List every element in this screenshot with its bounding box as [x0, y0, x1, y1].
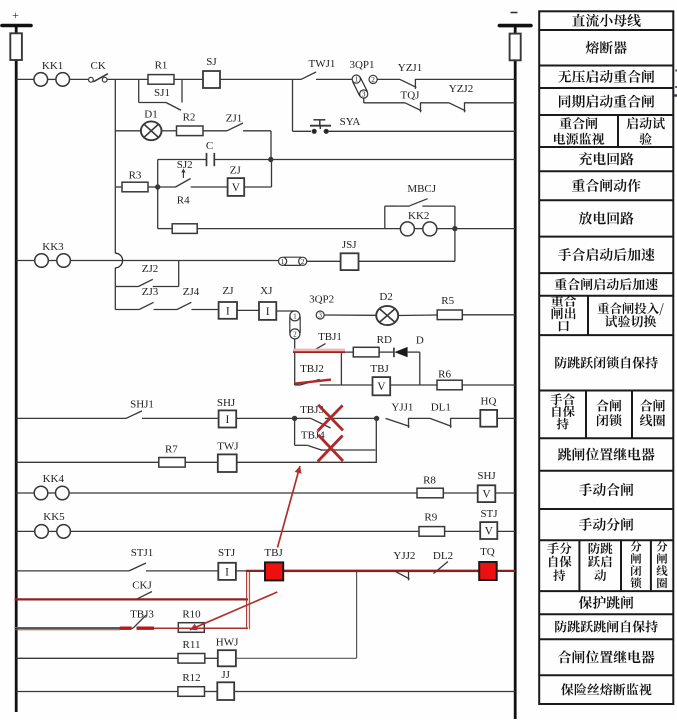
wire junction CK drop V1 upper	[114, 79, 116, 187]
wire V1 to ZJ3	[115, 309, 139, 311]
contact TBJ3	[295, 404, 331, 428]
switch CK	[89, 60, 108, 82]
wire YZJ2 to bus	[465, 102, 516, 104]
red highlight TBJ1 closed	[293, 349, 345, 353]
wire bus to R12	[16, 691, 178, 693]
svg-text:R4: R4	[177, 195, 190, 207]
svg-text:V: V	[485, 526, 494, 538]
contact TWJ1	[301, 58, 335, 79]
svg-text:R7: R7	[165, 444, 178, 456]
contact ZJ2	[125, 263, 159, 287]
wire KK3 row	[70, 260, 278, 262]
resistor RD	[353, 334, 392, 357]
relay coil TBJ current (red)	[264, 547, 283, 580]
contact TBJ3 bottom	[130, 609, 154, 629]
svg-text:JSJ: JSJ	[342, 239, 357, 251]
wire V1 to D1	[115, 130, 141, 132]
label TBJ2	[300, 363, 324, 375]
contact YJJ1	[386, 402, 414, 428]
svg-text:XJ: XJ	[260, 285, 273, 297]
wire 3QP1-2 to YZJ1	[377, 78, 400, 80]
red wire V9 outline	[247, 571, 250, 629]
svg-text:TQJ: TQJ	[401, 90, 421, 102]
svg-text:V: V	[377, 381, 386, 393]
wire D to corner	[408, 351, 420, 353]
contact SJ2 delayed	[176, 159, 193, 187]
contact TBJ4	[295, 430, 326, 451]
svg-text:3: 3	[362, 91, 366, 99]
svg-text:R1: R1	[155, 60, 168, 72]
wire KK1 to CK	[70, 78, 89, 80]
svg-text:R5: R5	[441, 295, 454, 307]
svg-text:TBJ: TBJ	[370, 363, 389, 375]
function table	[539, 11, 677, 704]
contact YZJ1	[398, 62, 422, 89]
svg-text:+: +	[12, 8, 19, 22]
node - (negative DC bus label)	[511, 12, 518, 14]
wire 3QP2-2 drop	[294, 339, 296, 352]
node junction KK2	[453, 226, 457, 230]
node junction C row	[269, 157, 273, 161]
wire V5	[340, 352, 342, 385]
svg-text:R11: R11	[183, 639, 201, 651]
wire R8 to SHJ	[443, 492, 477, 494]
svg-text:HWJ: HWJ	[216, 637, 239, 649]
svg-text:SYA: SYA	[340, 116, 361, 128]
wire V2 to R4	[158, 228, 173, 230]
wire SJ1 branch right	[181, 79, 183, 102]
wire TBJ3b to R10	[146, 627, 178, 629]
svg-text:ZJ4: ZJ4	[183, 286, 200, 298]
wire TBJ2 to TBJ	[320, 384, 373, 386]
wire KK2 to bus	[437, 228, 515, 230]
relay coil SJ	[203, 56, 220, 88]
contact SHJ1	[126, 399, 154, 419]
contact MBCJ	[399, 183, 437, 206]
svg-text:2: 2	[371, 76, 375, 84]
svg-text:R9: R9	[424, 512, 437, 524]
svg-text:I: I	[266, 306, 270, 318]
wire TWJ right	[237, 461, 377, 463]
resistor R1	[148, 60, 174, 85]
lamp D1	[141, 109, 162, 141]
node junction R3	[156, 185, 160, 189]
wire D2 to R5	[398, 314, 437, 317]
svg-text:TBJ1: TBJ1	[318, 331, 342, 343]
wire C row left	[158, 160, 207, 188]
wire R3 left	[115, 186, 122, 188]
plug 3QP2	[290, 294, 334, 339]
svg-text:3QP2: 3QP2	[309, 294, 334, 306]
svg-text:YZJ1: YZJ1	[398, 62, 422, 74]
svg-text:I: I	[226, 305, 230, 317]
wire ZJ to corner	[244, 160, 271, 188]
wire junction to SJ2	[158, 186, 176, 188]
relay coil JJ	[217, 669, 234, 700]
switch KK4	[34, 473, 69, 500]
svg-text:CK: CK	[91, 60, 106, 72]
red wire trip row	[246, 570, 515, 572]
svg-text:ZJ: ZJ	[223, 285, 235, 297]
wire bus to CKJ black	[16, 598, 136, 600]
resistor R7	[159, 444, 185, 468]
resistor R2	[177, 112, 204, 136]
wire SYA to bus	[328, 130, 515, 132]
contact TBJ1	[295, 331, 342, 352]
wire ZJ1 to corner	[243, 131, 271, 160]
svg-text:MBCJ: MBCJ	[407, 183, 436, 195]
fuse FU1	[10, 33, 22, 60]
wire V1 to ZJ2	[115, 286, 124, 288]
svg-text:KK1: KK1	[42, 60, 63, 72]
wire RD to D	[379, 351, 394, 353]
wire R7 to TWJ	[185, 461, 218, 463]
wire KK5 to R9	[70, 530, 419, 532]
wire STJ1 to STJ	[146, 570, 218, 572]
contact ZJ1	[226, 113, 243, 131]
svg-text:R12: R12	[182, 672, 200, 684]
svg-text:ZJ: ZJ	[230, 165, 242, 177]
wire R4 to KK2	[197, 228, 400, 230]
svg-text:D1: D1	[144, 109, 157, 121]
red mark TBJ2	[295, 380, 331, 384]
svg-text:YJJ2: YJJ2	[393, 550, 415, 562]
resistor R6	[437, 369, 462, 390]
svg-text:ZJ1: ZJ1	[226, 113, 243, 125]
wire bus to R7	[16, 461, 159, 463]
wire R9 to STJ	[445, 530, 481, 532]
wire ZJ4 to ZJ	[191, 309, 218, 311]
wire plug to JSJ	[307, 260, 341, 262]
wire bus to R11	[16, 657, 178, 659]
contact DL2	[433, 550, 453, 574]
wire R5 to bus	[462, 314, 515, 316]
wire MBCJ branch up	[385, 206, 399, 229]
switch KK1	[34, 60, 70, 86]
wire TWJ1 to 3QP1	[316, 78, 352, 80]
svg-text:SJ2: SJ2	[177, 159, 193, 171]
svg-text:SHJ: SHJ	[477, 470, 496, 482]
svg-text:V: V	[232, 182, 241, 194]
wire bus to KK4	[16, 492, 34, 494]
svg-text:TWJ: TWJ	[217, 441, 239, 453]
relay coil HQ	[480, 396, 497, 427]
red wire TBJ3 row outline	[15, 628, 249, 630]
svg-text:KK2: KK2	[408, 210, 429, 222]
wire SHJ1 to SHJ	[142, 417, 219, 419]
relay coil SHJ voltage	[477, 470, 496, 502]
capacitor C	[206, 140, 214, 166]
wire TBJ to TQ black	[283, 570, 479, 572]
resistor R4	[172, 195, 197, 234]
contact TQJ	[401, 90, 422, 113]
wire SHJ to bus	[495, 492, 515, 494]
wire ZJ2 right	[153, 261, 179, 287]
wire TBJ to R6	[390, 384, 437, 386]
bus bar negative	[499, 24, 531, 28]
svg-text:DL1: DL1	[431, 402, 451, 414]
wire gray V8	[356, 571, 358, 658]
wire black V9 under	[247, 571, 249, 628]
diode D	[394, 335, 424, 358]
svg-text:HQ: HQ	[481, 396, 497, 408]
switch KK2	[400, 210, 436, 236]
wire JJ to bus	[234, 691, 515, 693]
contact YJJ2	[393, 550, 415, 580]
wire V6 diode drop	[419, 352, 421, 385]
svg-text:STJ: STJ	[218, 547, 236, 559]
svg-text:JJ: JJ	[221, 669, 230, 681]
resistor R11	[178, 639, 205, 663]
wire CKJ right black	[152, 598, 248, 600]
relay coil JSJ	[341, 239, 359, 270]
svg-text:KK4: KK4	[43, 473, 65, 485]
wire STJ to bus	[497, 530, 515, 532]
wire R2 to ZJ1	[203, 130, 227, 132]
svg-text:TBJ2: TBJ2	[300, 363, 324, 375]
resistor R10	[178, 609, 204, 633]
resistor R3	[122, 170, 148, 192]
svg-text:I: I	[225, 414, 229, 426]
contact TBJ2	[295, 379, 320, 385]
svg-text:ZJ3: ZJ3	[142, 286, 159, 298]
svg-text:RD: RD	[377, 334, 392, 346]
svg-text:KK3: KK3	[42, 241, 64, 253]
node + (positive DC bus label)	[12, 8, 19, 22]
wire SJ1 branch	[139, 102, 166, 104]
relay coil STJ voltage	[480, 508, 498, 539]
svg-text:1: 1	[355, 76, 359, 84]
wire JSJ right	[359, 229, 455, 262]
resistor R5	[437, 295, 462, 320]
wire KK4 to R8	[69, 492, 417, 494]
contact SJ1	[154, 87, 181, 110]
wire TWJ1 junction drop	[293, 79, 312, 131]
svg-text:TWJ1: TWJ1	[309, 58, 336, 70]
wire D1 to R2	[162, 130, 177, 132]
svg-text:TBJ3: TBJ3	[130, 609, 154, 621]
svg-text:SJ1: SJ1	[154, 87, 170, 99]
relay coil ZJ current	[219, 285, 237, 319]
wire MBCJ right	[422, 206, 455, 229]
switch KK5	[35, 511, 71, 538]
wire R6 to bus	[462, 384, 515, 386]
contact CKJ	[132, 580, 152, 600]
bus bar positive	[2, 24, 31, 28]
svg-text:SHJ1: SHJ1	[130, 399, 154, 411]
wire V4 TBJ3-TBJ4	[294, 418, 296, 445]
resistor R12	[178, 672, 205, 696]
wire HQ to bus	[497, 417, 515, 419]
red arrow to R10	[190, 592, 277, 630]
svg-text:YZJ2: YZJ2	[449, 83, 473, 95]
relay coil STJ current	[218, 547, 236, 580]
relay coil XJ	[259, 285, 276, 320]
wire R3 to junction	[148, 186, 158, 188]
push button SYA	[310, 116, 360, 133]
svg-text:R3: R3	[129, 170, 142, 182]
wire bus to KK3	[16, 260, 34, 262]
wire R10 right	[204, 627, 248, 629]
wire DL1 to HQ	[451, 417, 481, 419]
svg-text:1: 1	[281, 258, 285, 266]
svg-text:1: 1	[293, 313, 297, 321]
wire R12 to JJ	[205, 691, 218, 693]
wire TBJ4 right	[320, 449, 375, 451]
wire SJ1 branch left	[138, 79, 140, 102]
wire XJ to plug	[276, 310, 295, 312]
switch KK3	[35, 241, 71, 267]
svg-text:SJ: SJ	[206, 56, 217, 68]
resistor R9	[419, 512, 445, 537]
node TBJ3 left	[292, 416, 296, 420]
svg-text:KK5: KK5	[43, 511, 65, 523]
svg-text:DL2: DL2	[433, 550, 453, 562]
red wire CKJ row	[15, 598, 249, 600]
svg-text:R10: R10	[182, 609, 201, 621]
wire 3QP2-3 to D2	[324, 314, 376, 316]
wire bus to SHJ1	[16, 417, 126, 419]
wire V1 hop over KK3	[115, 187, 122, 310]
plug 3QP1	[349, 59, 377, 99]
wire SHJ to node	[236, 417, 294, 419]
relay coil SHJ current	[217, 397, 236, 428]
relay coil ZJ voltage	[228, 165, 245, 196]
relay coil HWJ	[216, 637, 239, 667]
wire V7	[375, 418, 377, 463]
wire TBJ1 right	[320, 351, 354, 353]
wire 3QP1-3 drop	[364, 98, 405, 103]
wire TBJ3 right	[325, 417, 377, 419]
wire left bus	[15, 26, 18, 713]
svg-text:R6: R6	[438, 369, 451, 381]
wire bus to KK5	[16, 530, 35, 532]
svg-text:D: D	[416, 335, 424, 347]
wire V4 TBJ1-TBJ2	[294, 352, 296, 385]
wire SJ2 to ZJ	[191, 186, 228, 188]
svg-text:C: C	[206, 140, 213, 152]
red X TBJ4	[318, 435, 343, 462]
svg-text:STJ1: STJ1	[131, 547, 154, 559]
contact ZJ3	[139, 286, 159, 310]
wire TQJ to YZJ2	[421, 102, 450, 104]
wire ZJ to XJ	[237, 309, 259, 311]
svg-text:D2: D2	[379, 291, 392, 303]
red arrow to TBJ4	[278, 466, 302, 548]
contact ZJ4	[177, 286, 200, 310]
resistor R8	[417, 475, 443, 498]
svg-text:SHJ: SHJ	[217, 397, 236, 409]
relay coil TQ (red)	[479, 546, 497, 580]
wire R1 to SJ	[174, 78, 203, 80]
svg-text:V: V	[482, 489, 491, 501]
wire bus to TBJ3b black	[16, 627, 133, 629]
wire STJ to TBJ	[236, 570, 265, 572]
plug contact KK3 row	[279, 257, 307, 266]
svg-text:TQ: TQ	[480, 546, 495, 558]
wire CK to R1	[107, 78, 148, 80]
wire R11 to HWJ	[205, 657, 218, 659]
relay coil TWJ	[217, 441, 239, 473]
wire SJ to TWJ1	[220, 78, 301, 80]
lamp D2	[376, 291, 398, 325]
svg-text:2: 2	[293, 331, 297, 339]
wire V2 junction drop	[157, 187, 159, 229]
svg-text:R2: R2	[183, 112, 196, 124]
wire YZJ1 to bus	[415, 78, 515, 80]
fuse FU2	[510, 34, 521, 61]
svg-text:STJ: STJ	[480, 508, 498, 520]
wire row1 bus to KK1	[16, 78, 34, 80]
wire C row to bus	[271, 159, 515, 161]
svg-text:ZJ2: ZJ2	[142, 263, 159, 275]
wire YJJ1 to DL1	[409, 417, 431, 419]
svg-text:R8: R8	[423, 475, 436, 487]
svg-text:3: 3	[318, 312, 322, 320]
wire ZJ3 to ZJ4	[154, 309, 177, 311]
relay coil TBJ voltage	[370, 363, 390, 395]
svg-text:CKJ: CKJ	[132, 580, 152, 592]
contact DL1	[430, 402, 452, 428]
node YJJ1 left	[374, 416, 378, 420]
svg-text:YJJ1: YJJ1	[391, 402, 413, 414]
wire bus to STJ1	[16, 570, 129, 572]
svg-text:2: 2	[301, 258, 305, 266]
contact YZJ2	[449, 83, 473, 112]
wire right bus	[514, 26, 517, 719]
svg-text:TBJ: TBJ	[264, 547, 283, 559]
contact STJ1	[129, 547, 153, 571]
wire C to junction	[214, 159, 270, 161]
svg-text:3QP1: 3QP1	[349, 59, 374, 71]
wire HWJ right	[236, 657, 357, 659]
svg-text:I: I	[225, 566, 229, 578]
red X TBJ3	[318, 405, 343, 431]
